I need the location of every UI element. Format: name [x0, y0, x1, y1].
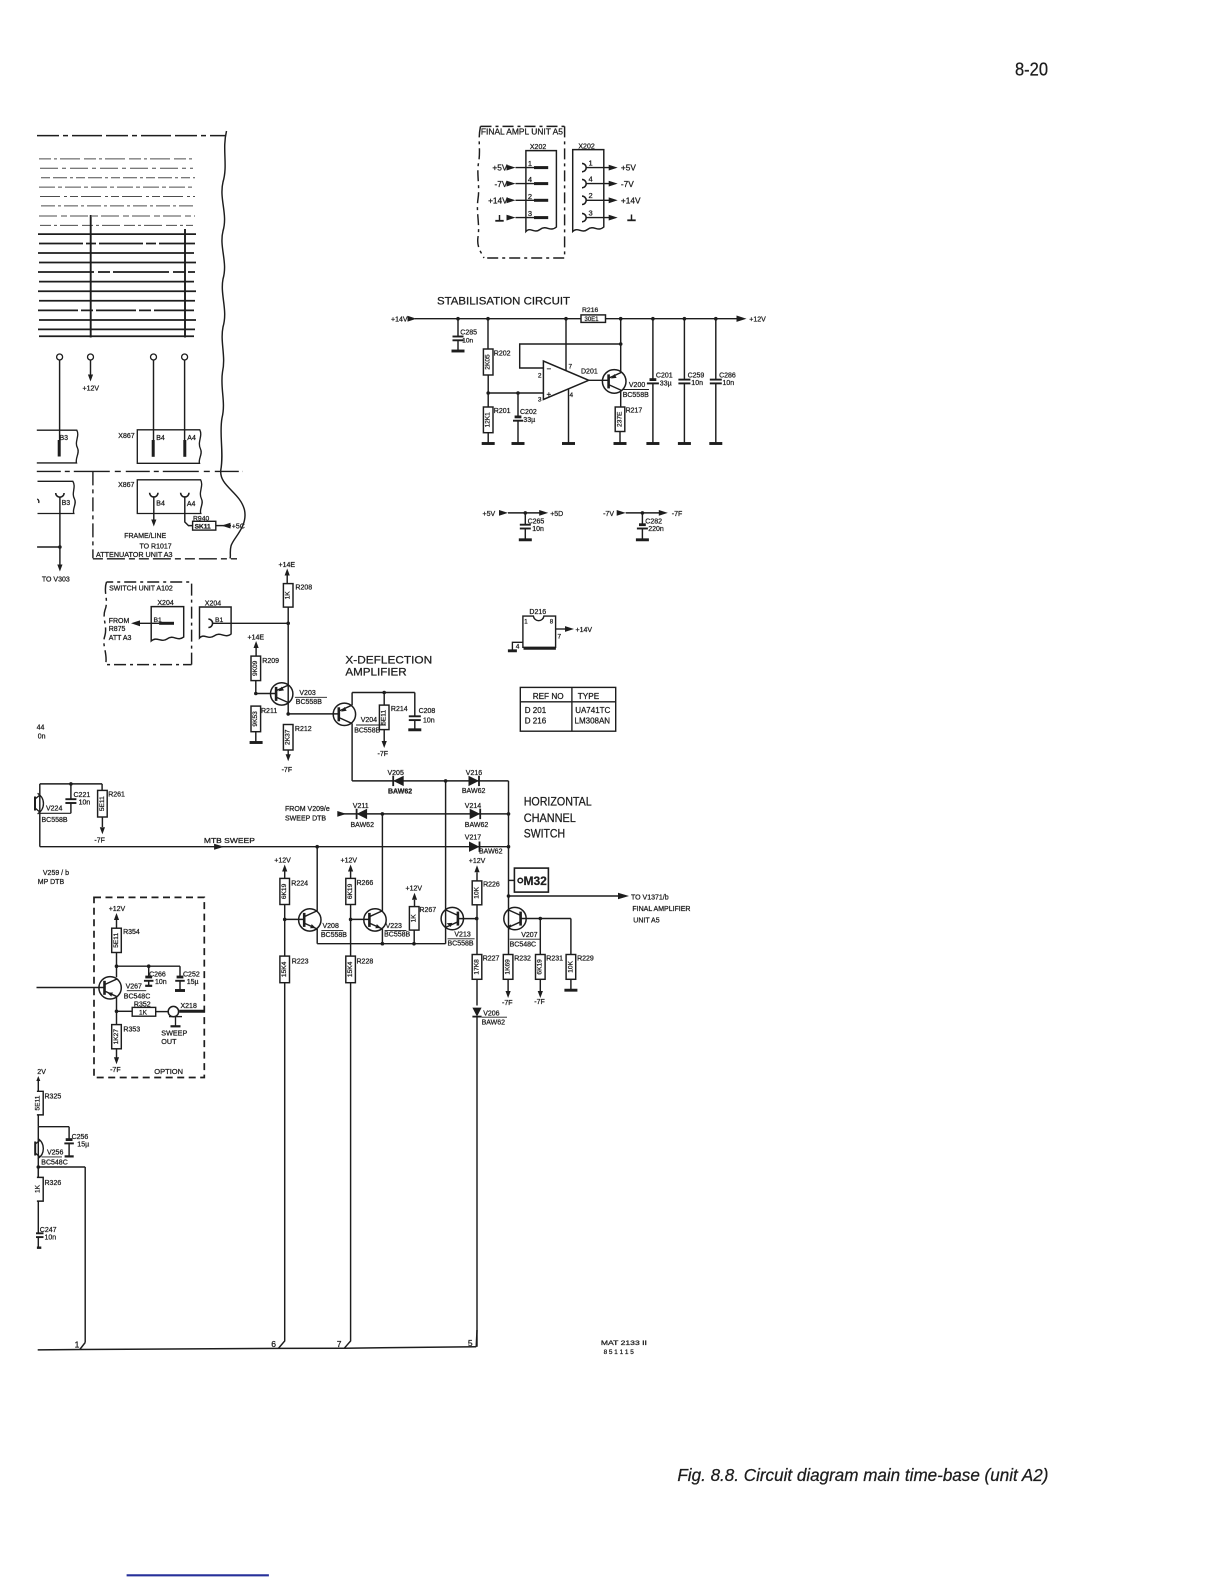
svg-text:2: 2: [589, 191, 593, 200]
supply -7F (R214): [383, 730, 385, 742]
resistor R325 (partial): [37, 1091, 43, 1115]
svg-text:3: 3: [538, 396, 542, 403]
svg-text:1: 1: [528, 159, 532, 168]
svg-text:X-DEFLECTION: X-DEFLECTION: [345, 654, 432, 666]
capacitor C282: [641, 513, 643, 525]
svg-text:1K: 1K: [139, 1009, 148, 1016]
svg-text:BAW62: BAW62: [479, 848, 503, 855]
svg-text:33µ: 33µ: [660, 381, 672, 388]
socket 2 +14V: [582, 196, 586, 204]
bus corner node 5: [475, 1330, 478, 1347]
svg-text:V259 / b: V259 / b: [43, 870, 69, 877]
svg-text:UA741TC: UA741TC: [575, 706, 610, 715]
resistor R266: [346, 878, 356, 904]
svg-text:R266: R266: [357, 880, 374, 887]
switch unit A102 dashed box: [104, 582, 192, 665]
ground C252: [175, 989, 185, 992]
wire +input: [488, 392, 543, 394]
svg-text:FINAL AMPLIFIER: FINAL AMPLIFIER: [632, 906, 690, 913]
wire V207 vertical: [508, 908, 510, 955]
wire pin7 supply: [565, 319, 567, 371]
svg-text:R209: R209: [262, 658, 279, 665]
diode V205: [393, 776, 404, 786]
svg-text:3: 3: [589, 208, 593, 217]
wire row1 corner down: [508, 781, 510, 908]
svg-text:4: 4: [589, 174, 593, 183]
svg-text:BC558B: BC558B: [321, 932, 347, 939]
capacitor C286: [715, 319, 717, 380]
svg-text:+14E: +14E: [279, 562, 296, 569]
svg-text:ATT A3: ATT A3: [109, 635, 132, 642]
svg-text:-7F: -7F: [534, 999, 545, 1006]
svg-text:C259: C259: [688, 372, 705, 379]
wire V203 to V204 base: [288, 713, 339, 715]
svg-text:10n: 10n: [423, 717, 435, 724]
svg-text:C266: C266: [149, 971, 166, 978]
connector X204 male pin: [159, 622, 174, 625]
connector X204 male: [151, 607, 184, 641]
wire +14V rail left: [415, 318, 581, 320]
ground C285: [452, 350, 465, 353]
wire V256 collector: [38, 1126, 69, 1128]
svg-text:-7F: -7F: [282, 767, 293, 774]
wire bundle (off-sheet cable lines): [37, 135, 225, 137]
svg-text:R232: R232: [514, 956, 531, 963]
svg-text:A4: A4: [187, 435, 196, 442]
svg-text:1K: 1K: [411, 914, 418, 923]
svg-text:R216: R216: [582, 307, 598, 314]
ic D216 pin4 ground: [512, 642, 523, 650]
wire V208 emitter up: [316, 847, 318, 911]
svg-text:5E11: 5E11: [381, 710, 388, 725]
svg-text:MAT 2133 II: MAT 2133 II: [601, 1340, 647, 1347]
resistor R217: [615, 407, 625, 432]
svg-text:V211: V211: [353, 803, 369, 810]
svg-text:BC558B: BC558B: [296, 699, 322, 706]
connector X867 female contact A4: [181, 493, 189, 497]
svg-text:+12V: +12V: [274, 858, 291, 865]
svg-text:FROM V209/e: FROM V209/e: [285, 806, 330, 813]
wire R352 to X218: [156, 1011, 169, 1013]
svg-text:FROM: FROM: [109, 618, 130, 625]
svg-text:+: +: [547, 390, 552, 399]
transistor V207: [504, 907, 526, 929]
svg-text:1K: 1K: [285, 591, 292, 600]
svg-text:V213: V213: [454, 932, 470, 939]
wire base V207: [521, 918, 571, 920]
resistor R201: [487, 393, 489, 407]
svg-text:V224: V224: [46, 806, 62, 813]
ic D216: [523, 616, 556, 647]
ground R211: [250, 741, 263, 744]
wire R325 down: [37, 1115, 39, 1127]
svg-text:X867: X867: [118, 482, 134, 489]
transistor V204: [333, 703, 355, 725]
svg-text:-7F: -7F: [110, 1067, 121, 1074]
svg-text:9K53: 9K53: [252, 711, 259, 727]
diode V217: [469, 842, 480, 852]
transistor V224 (partial): [38, 793, 44, 814]
svg-text:C286: C286: [719, 372, 736, 379]
option dashed box: [94, 897, 204, 1077]
svg-text:+12V: +12V: [469, 858, 486, 865]
svg-text:15µ: 15µ: [77, 1141, 89, 1148]
socket 4 -7V: [582, 179, 586, 187]
connector X204 female: [200, 607, 232, 638]
arrow to V303: [57, 565, 62, 572]
svg-text:C202: C202: [520, 409, 537, 416]
svg-text:AMPLIFIER: AMPLIFIER: [345, 667, 406, 679]
wire V267 emitter down: [116, 997, 118, 1012]
wire R266 to base node: [350, 905, 352, 957]
wire V223 emitter up: [381, 814, 383, 911]
transistor V256 (partial): [38, 1139, 44, 1159]
svg-text:10n: 10n: [723, 380, 735, 387]
svg-text:V267: V267: [126, 984, 142, 991]
wire V200 collector down: [620, 391, 622, 408]
wire V203 vertical: [287, 680, 289, 714]
svg-text:R201: R201: [494, 408, 511, 415]
supply -7F (R212): [286, 754, 291, 761]
svg-text:MTB SWEEP: MTB SWEEP: [204, 838, 255, 845]
unit boundary chain line: [37, 470, 243, 472]
supply -7F (R231): [539, 979, 541, 991]
svg-text:10n: 10n: [462, 337, 473, 344]
svg-text:2K37: 2K37: [285, 729, 292, 745]
svg-text:BAW62: BAW62: [462, 788, 486, 795]
capacitor C208: [414, 693, 416, 717]
connector X867 male pin A4: [183, 440, 186, 457]
wire V208 collector down: [316, 929, 318, 944]
bundle tie wire left: [90, 215, 92, 338]
svg-text:V203: V203: [299, 690, 315, 697]
relay contact SK11: [193, 521, 216, 530]
svg-text:-7V: -7V: [494, 179, 507, 189]
svg-text:6K19: 6K19: [281, 883, 288, 899]
svg-text:X218: X218: [181, 1003, 197, 1010]
svg-text:+5V: +5V: [492, 163, 507, 173]
transistor V213: [441, 907, 463, 929]
pin 3 ground: [499, 215, 501, 221]
svg-text:R212: R212: [295, 726, 312, 733]
transistor V203: [271, 683, 293, 705]
resistor R212: [283, 725, 293, 751]
svg-text:R224: R224: [291, 880, 308, 887]
ic D216 pin7 +14V: [556, 628, 568, 630]
resistor R214: [383, 693, 385, 706]
svg-text:R214: R214: [391, 706, 408, 713]
svg-text:C265: C265: [528, 518, 545, 525]
svg-text:1: 1: [524, 619, 528, 626]
connector B3 male pin: [58, 440, 61, 457]
svg-text:2: 2: [528, 192, 532, 201]
svg-text:C201: C201: [656, 372, 673, 379]
connector X218 mating pin: [179, 1010, 205, 1013]
supply -7F (R232): [507, 979, 509, 991]
resistor R231: [539, 919, 541, 955]
svg-text:A4: A4: [187, 501, 196, 508]
blue underline mark: [127, 1574, 269, 1576]
resistor R226: [472, 881, 482, 905]
svg-text:8 5 1 1 1 5: 8 5 1 1 1 5: [604, 1349, 635, 1356]
wire R208 to V203: [287, 607, 289, 680]
svg-text:+14V: +14V: [576, 627, 593, 634]
capacitor C265: [524, 513, 526, 525]
ground C259: [678, 442, 691, 445]
svg-text:−: −: [547, 365, 552, 374]
svg-text:10n: 10n: [45, 1235, 57, 1242]
svg-text:BC548C: BC548C: [41, 1159, 67, 1166]
svg-text:R267: R267: [419, 907, 436, 914]
wire base V267: [37, 987, 105, 989]
ground C202: [512, 442, 525, 445]
test point circle B4 wire: [151, 354, 157, 360]
svg-text:MP DTB: MP DTB: [38, 879, 65, 886]
svg-text:R326: R326: [45, 1180, 62, 1187]
capacitor C202: [517, 393, 519, 417]
svg-text:M32: M32: [524, 874, 548, 888]
svg-text:V200: V200: [629, 382, 645, 389]
svg-text:7: 7: [569, 363, 573, 370]
svg-text:5E11: 5E11: [113, 933, 120, 948]
svg-text:SWITCH: SWITCH: [524, 827, 565, 841]
wire B3 to V303: [59, 497, 61, 566]
op-amp D201: [543, 361, 588, 400]
connector X867 male pin B4: [152, 440, 155, 457]
svg-text:R231: R231: [546, 956, 563, 963]
svg-text:X204: X204: [205, 600, 221, 607]
svg-text:BC558B: BC558B: [384, 932, 410, 939]
svg-text:R211: R211: [261, 708, 277, 715]
supply -7F (R353): [116, 1049, 118, 1058]
svg-text:1K27: 1K27: [113, 1029, 120, 1045]
resistor R227: [472, 955, 482, 980]
svg-text:+5V: +5V: [621, 163, 636, 173]
resistor R228: [346, 956, 356, 983]
svg-text:+14E: +14E: [248, 634, 265, 641]
svg-text:2K05: 2K05: [485, 354, 492, 370]
svg-text:TYPE: TYPE: [578, 692, 600, 701]
resistor R223: [280, 956, 290, 983]
wire R227 to V206: [476, 979, 478, 1005]
svg-text:-7F: -7F: [502, 1000, 513, 1007]
capacitor C285: [457, 319, 459, 337]
svg-text:15K4: 15K4: [347, 961, 354, 977]
wire emitter rail: [352, 692, 415, 694]
svg-text:+14V: +14V: [488, 196, 508, 206]
svg-text:SWEEP DTB: SWEEP DTB: [285, 816, 326, 823]
wire base V223: [351, 918, 369, 920]
svg-text:+12V: +12V: [109, 906, 126, 913]
socket 1 +5V: [582, 163, 586, 171]
test point circle A4 wire: [182, 354, 188, 360]
svg-text:12K1: 12K1: [485, 412, 492, 428]
wire down to node 1: [84, 1167, 86, 1343]
wire V213 vertical: [445, 781, 447, 944]
svg-text:R208: R208: [295, 584, 312, 591]
wire from sheet edge: [37, 546, 60, 548]
capacitor C256: [68, 1127, 70, 1140]
svg-text:+5V: +5V: [483, 511, 496, 518]
resistor R202: [487, 319, 489, 349]
svg-text:-7F: -7F: [94, 838, 105, 845]
torn sheet edge (wavy): [221, 131, 245, 559]
ground R201: [487, 433, 489, 443]
svg-text:7: 7: [558, 634, 562, 641]
svg-text:15µ: 15µ: [187, 979, 199, 986]
svg-text:1: 1: [589, 158, 593, 167]
wire FROM R875: [136, 622, 159, 624]
svg-text:R354: R354: [123, 929, 140, 936]
svg-text:6K19: 6K19: [347, 883, 354, 899]
wire R223 down to node 6: [284, 983, 286, 1335]
svg-text:10n: 10n: [155, 979, 167, 986]
svg-text:2V: 2V: [37, 1069, 46, 1076]
svg-text:C252: C252: [183, 971, 200, 978]
wire X204 B1 to R208 node: [213, 622, 288, 624]
ground C286: [709, 442, 722, 445]
connector B3 male (partial): [37, 430, 78, 463]
wire R354 to collector node: [116, 953, 118, 978]
svg-text:C208: C208: [419, 708, 436, 715]
resistor R229: [570, 919, 572, 955]
svg-text:R227: R227: [483, 956, 500, 963]
wire V206 down to node 5: [476, 1017, 478, 1347]
ground pin4: [562, 442, 575, 445]
svg-text:OPTION: OPTION: [154, 1067, 183, 1076]
svg-text:5E11: 5E11: [99, 796, 106, 811]
svg-text:LM308AN: LM308AN: [575, 717, 611, 726]
svg-text:+12V: +12V: [749, 316, 766, 323]
diode V206: [472, 1008, 481, 1017]
svg-text:BAW62: BAW62: [465, 822, 489, 829]
svg-text:V206: V206: [483, 1010, 499, 1017]
wire left chain: [37, 1167, 39, 1177]
wire R267 to rail: [413, 930, 415, 944]
svg-text:8-20: 8-20: [1015, 60, 1048, 80]
svg-text:OUT: OUT: [161, 1037, 177, 1046]
svg-text:8: 8: [550, 619, 554, 626]
wire V223 collector down: [381, 929, 383, 944]
svg-text:R217: R217: [626, 408, 643, 415]
svg-text:+12V: +12V: [406, 886, 423, 893]
svg-text:V256: V256: [47, 1150, 63, 1157]
svg-text:FRAME/LINE: FRAME/LINE: [124, 533, 166, 540]
svg-text:-7V: -7V: [603, 511, 614, 518]
svg-text:10K: 10K: [567, 960, 574, 972]
wire +12V rail right: [606, 318, 739, 320]
svg-text:BAW62: BAW62: [388, 789, 412, 796]
connector B3 female contact: [56, 493, 64, 497]
final ampl unit A5 dashed box: [477, 126, 564, 258]
connector X202 male: [526, 151, 557, 232]
svg-text:V214: V214: [465, 803, 481, 810]
svg-text:BC558B: BC558B: [42, 817, 68, 824]
svg-text:+12V: +12V: [83, 386, 100, 393]
svg-text:R229: R229: [577, 956, 594, 963]
svg-text:BAW62: BAW62: [351, 822, 375, 829]
socket 3 ground: [582, 213, 586, 221]
resistor R354: [112, 928, 122, 952]
ground R217: [619, 432, 621, 443]
svg-text:5E11: 5E11: [35, 1095, 42, 1110]
resistor R232: [503, 955, 513, 980]
wire R326 down: [37, 1201, 39, 1233]
supply -7F (R261): [101, 817, 103, 827]
wire V204 emitter up: [351, 693, 353, 706]
svg-text:CHANNEL: CHANNEL: [524, 811, 576, 825]
svg-text:V216: V216: [466, 770, 482, 777]
svg-text:4: 4: [570, 392, 574, 399]
diode V216: [469, 776, 480, 786]
svg-text:2: 2: [538, 372, 542, 379]
svg-text:+14V: +14V: [621, 196, 641, 206]
svg-text:C256: C256: [72, 1134, 89, 1141]
svg-text:-7F: -7F: [672, 511, 683, 518]
wire pin4 ground: [568, 389, 570, 443]
transistor V208: [299, 909, 321, 931]
wire SK11 +5C: [216, 525, 231, 527]
svg-text:-7F: -7F: [378, 751, 389, 758]
wire R224 to base node: [284, 905, 286, 957]
svg-text:10n: 10n: [532, 526, 544, 533]
svg-text:R223: R223: [292, 959, 309, 966]
svg-text:V208: V208: [323, 923, 339, 930]
diode V214: [470, 809, 481, 819]
svg-text:R228: R228: [357, 959, 374, 966]
capacitor C221: [70, 784, 72, 799]
svg-text:BC558B: BC558B: [448, 940, 474, 947]
svg-text:10n: 10n: [79, 800, 91, 807]
svg-text:+12V: +12V: [341, 858, 358, 865]
svg-text:X867: X867: [118, 433, 134, 440]
wire A4 to SK11: [185, 496, 193, 525]
diode V211: [357, 809, 368, 819]
wire emitter rail V256: [38, 1166, 85, 1168]
svg-text:V205: V205: [388, 770, 404, 777]
resistor R208: [283, 584, 293, 608]
svg-text:R261: R261: [108, 791, 125, 798]
svg-text:R202: R202: [494, 350, 511, 357]
svg-text:4: 4: [528, 175, 532, 184]
wire R209 to base node: [255, 681, 257, 694]
svg-text:C221: C221: [74, 792, 91, 799]
connector X204 female contact: [208, 619, 212, 627]
svg-text:BC558B: BC558B: [623, 392, 649, 399]
capacitor C252: [179, 966, 181, 977]
wire collector rail: [317, 943, 445, 945]
svg-text:33µ: 33µ: [523, 417, 535, 424]
svg-text:B4: B4: [156, 435, 165, 442]
svg-text:30E1: 30E1: [585, 317, 600, 323]
svg-text:D201: D201: [581, 368, 598, 375]
svg-text:+14V: +14V: [391, 316, 408, 323]
svg-text:R875: R875: [109, 626, 126, 633]
svg-text:STABILISATION CIRCUIT: STABILISATION CIRCUIT: [437, 295, 570, 307]
svg-text:REF NO: REF NO: [533, 692, 564, 701]
capacitor C259: [683, 319, 685, 380]
svg-text:V204: V204: [361, 717, 377, 724]
svg-text:237E: 237E: [616, 411, 623, 427]
connector X867 female contact B4: [150, 493, 158, 497]
wire base V213: [458, 918, 477, 920]
svg-text:BC548C: BC548C: [510, 942, 536, 949]
svg-text:UNIT A5: UNIT A5: [633, 917, 659, 924]
svg-text:V207: V207: [521, 932, 537, 939]
wire feedback pin2: [520, 344, 621, 368]
svg-text:15K4: 15K4: [281, 961, 288, 977]
svg-text:V217: V217: [465, 834, 481, 841]
